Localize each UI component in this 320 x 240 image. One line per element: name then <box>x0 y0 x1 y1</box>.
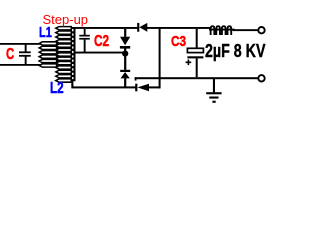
terminal 1 <box>258 27 264 33</box>
wire choke to terminal 1 <box>233 29 259 31</box>
capacitor C3 (filter, polarized) <box>186 29 204 77</box>
wire top rail (D3 to output choke) <box>147 27 211 29</box>
wire bottom rail left <box>0 64 43 66</box>
wire transformer secondary bottom drop <box>71 79 73 88</box>
terminal 2 <box>258 75 264 81</box>
label L1 <box>39 26 52 41</box>
wire bottom (secondary bottom to D4) <box>73 86 136 88</box>
capacitor C2 <box>79 29 90 52</box>
wire middle (secondary tap to node) <box>74 52 125 54</box>
label C2 <box>94 34 109 50</box>
wire vertical V1 (top rail to bottom wire) <box>159 28 161 88</box>
ground symbol <box>206 79 221 103</box>
wire ground rail <box>135 77 258 79</box>
diode D2 (vertical, bottom) <box>120 56 130 87</box>
wire ground rail end tick <box>135 77 137 80</box>
label C3 <box>171 34 186 49</box>
capacitor C <box>19 45 31 65</box>
wire top rail left <box>0 43 43 45</box>
inductor output choke <box>211 26 232 35</box>
diode D3 (horizontal, top wire) <box>137 23 147 32</box>
inductor L2 secondary winding <box>56 27 75 83</box>
diode D4 (horizontal, bottom wire) <box>135 84 160 92</box>
inductor L1 primary winding <box>39 42 59 67</box>
label L2 <box>50 81 64 97</box>
wire top rail (secondary top to diode D3) <box>71 27 137 29</box>
label C <box>6 47 14 63</box>
label Step-up <box>43 13 89 26</box>
node junction dot <box>122 51 128 57</box>
label 2uF 8KV <box>205 42 265 61</box>
diode D1 (vertical, top) <box>120 29 130 52</box>
